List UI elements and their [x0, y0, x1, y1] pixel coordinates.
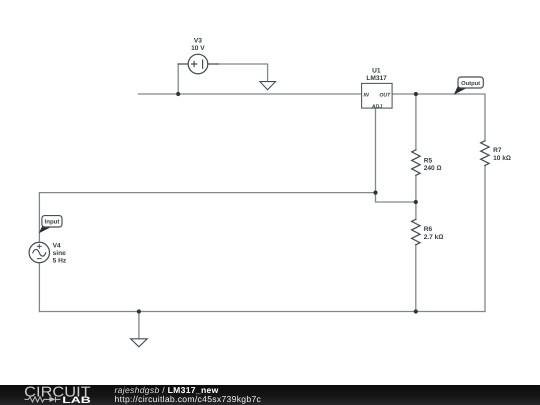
svg-text:V4: V4	[53, 243, 61, 250]
svg-text:LM317: LM317	[366, 75, 387, 82]
svg-text:IN: IN	[364, 92, 369, 98]
svg-text:10 kΩ: 10 kΩ	[493, 155, 511, 162]
svg-text:10 V: 10 V	[191, 45, 205, 52]
svg-text:R5: R5	[424, 157, 433, 164]
svg-text:2.7 kΩ: 2.7 kΩ	[424, 234, 444, 241]
svg-text:OUT: OUT	[379, 92, 391, 98]
svg-text:Output: Output	[461, 80, 480, 87]
svg-text:U1: U1	[372, 68, 381, 75]
svg-text:R6: R6	[424, 226, 433, 233]
svg-text:V3: V3	[194, 37, 202, 44]
svg-text:R7: R7	[493, 147, 502, 154]
svg-text:LAB: LAB	[62, 395, 91, 405]
svg-text:5 Hz: 5 Hz	[53, 258, 67, 265]
svg-text:sine: sine	[53, 250, 67, 257]
svg-text:240 Ω: 240 Ω	[424, 165, 442, 172]
svg-text:ADJ: ADJ	[371, 104, 382, 110]
svg-text:Input: Input	[45, 219, 60, 226]
